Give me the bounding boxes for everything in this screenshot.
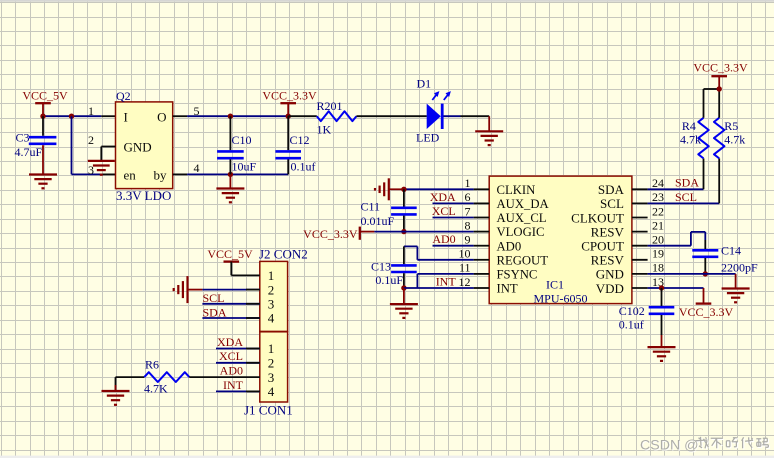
svg-text:4.7uF: 4.7uF	[15, 145, 43, 159]
svg-text:0.1uf: 0.1uf	[619, 317, 644, 331]
svg-text:21: 21	[652, 218, 664, 232]
svg-text:XCL: XCL	[219, 349, 243, 363]
svg-text:20: 20	[652, 233, 664, 247]
svg-text:4: 4	[268, 384, 275, 399]
svg-text:19: 19	[652, 247, 664, 261]
svg-text:FSYNC: FSYNC	[497, 268, 538, 282]
svg-text:RESV: RESV	[591, 224, 625, 239]
svg-text:23: 23	[652, 190, 664, 204]
svg-text:C11: C11	[361, 199, 381, 213]
svg-text:Q2: Q2	[116, 89, 131, 103]
svg-text:4: 4	[194, 161, 200, 175]
svg-text:2: 2	[268, 356, 275, 371]
svg-text:REGOUT: REGOUT	[497, 253, 549, 267]
svg-text:CSDN @: CSDN @	[640, 438, 699, 454]
svg-text:RESV: RESV	[591, 253, 625, 268]
svg-text:4.7k: 4.7k	[724, 132, 745, 146]
svg-text:CLKIN: CLKIN	[497, 183, 536, 197]
svg-text:D1: D1	[417, 77, 432, 91]
svg-text:GND: GND	[596, 267, 624, 282]
svg-text:3: 3	[268, 370, 275, 385]
svg-text:SCL: SCL	[600, 196, 624, 211]
svg-text:AUX_DA: AUX_DA	[497, 197, 550, 211]
svg-text:R4: R4	[682, 119, 696, 133]
svg-text:I: I	[124, 109, 128, 124]
svg-text:XCL: XCL	[432, 204, 456, 218]
svg-text:INT: INT	[436, 274, 457, 288]
svg-text:0.01uF: 0.01uF	[361, 214, 395, 228]
svg-text:VCC_5V: VCC_5V	[22, 89, 68, 103]
svg-text:4: 4	[268, 311, 275, 326]
svg-text:VCC_5V: VCC_5V	[207, 247, 253, 261]
svg-text:VCC_3.3V: VCC_3.3V	[262, 88, 317, 102]
svg-text:LED: LED	[416, 131, 440, 145]
svg-text:by: by	[154, 167, 168, 182]
svg-text:6: 6	[465, 190, 471, 204]
svg-text:VDD: VDD	[596, 281, 624, 296]
svg-text:en: en	[124, 167, 137, 182]
svg-text:2: 2	[268, 282, 275, 297]
svg-text:1: 1	[88, 104, 94, 118]
svg-text:2: 2	[88, 133, 94, 147]
svg-text:INT: INT	[223, 378, 244, 392]
svg-text:CPOUT: CPOUT	[581, 239, 624, 254]
svg-text:1K: 1K	[317, 122, 332, 136]
svg-text:INT: INT	[497, 282, 518, 296]
svg-text:VLOGIC: VLOGIC	[497, 225, 545, 239]
svg-text:SDA: SDA	[598, 182, 625, 197]
svg-text:XDA: XDA	[217, 335, 243, 349]
svg-text:3: 3	[268, 297, 275, 312]
svg-text:MPU-6050: MPU-6050	[534, 291, 588, 305]
svg-text:SDA: SDA	[675, 176, 699, 190]
svg-text:C102: C102	[619, 304, 645, 318]
svg-text:8: 8	[465, 218, 471, 232]
svg-text:11: 11	[459, 261, 471, 275]
svg-text:1: 1	[268, 341, 275, 356]
svg-text:J1 CON1: J1 CON1	[244, 402, 293, 417]
svg-text:4.7K: 4.7K	[144, 381, 168, 395]
svg-text:0.1uF: 0.1uF	[375, 273, 403, 287]
svg-text:AUX_CL: AUX_CL	[497, 211, 547, 225]
svg-text:0.1uf: 0.1uf	[291, 160, 316, 174]
svg-text:R201: R201	[317, 99, 343, 113]
svg-text:R6: R6	[145, 358, 159, 372]
svg-text:3.3V LDO: 3.3V LDO	[116, 188, 171, 203]
svg-text:C14: C14	[721, 243, 741, 257]
svg-text:18: 18	[652, 261, 664, 275]
svg-text:GND: GND	[124, 140, 152, 155]
svg-text:1: 1	[268, 268, 275, 283]
svg-text:R5: R5	[724, 119, 738, 133]
svg-text:22: 22	[652, 204, 664, 218]
svg-text:VCC_3.3V: VCC_3.3V	[679, 305, 734, 319]
svg-text:IC1: IC1	[546, 278, 564, 292]
svg-text:XDA: XDA	[430, 190, 456, 204]
svg-text:CLKOUT: CLKOUT	[571, 210, 624, 225]
svg-text:C10: C10	[232, 133, 252, 147]
svg-text:O: O	[157, 109, 166, 124]
svg-text:7: 7	[465, 204, 471, 218]
svg-text:AD0: AD0	[497, 239, 522, 253]
svg-text:1: 1	[465, 176, 471, 190]
svg-text:VCC_3.3V: VCC_3.3V	[303, 227, 358, 241]
svg-text:VCC_3.3V: VCC_3.3V	[693, 60, 748, 74]
svg-text:4.7k: 4.7k	[680, 132, 701, 146]
svg-text:10: 10	[459, 247, 471, 261]
svg-text:AD0: AD0	[220, 364, 243, 378]
svg-text:24: 24	[652, 176, 664, 190]
svg-text:SDA: SDA	[203, 305, 227, 319]
svg-text:SCL: SCL	[203, 291, 225, 305]
svg-text:C3: C3	[15, 130, 29, 144]
svg-text:2200pF: 2200pF	[721, 261, 758, 275]
svg-text:J2 CON2: J2 CON2	[259, 246, 308, 261]
svg-text:SCL: SCL	[675, 190, 697, 204]
svg-text:9: 9	[465, 233, 471, 247]
svg-text:C12: C12	[290, 133, 310, 147]
svg-text:C13: C13	[371, 260, 391, 274]
svg-text:10uF: 10uF	[232, 160, 257, 174]
svg-text:12: 12	[459, 275, 471, 289]
svg-text:AD0: AD0	[432, 232, 455, 246]
